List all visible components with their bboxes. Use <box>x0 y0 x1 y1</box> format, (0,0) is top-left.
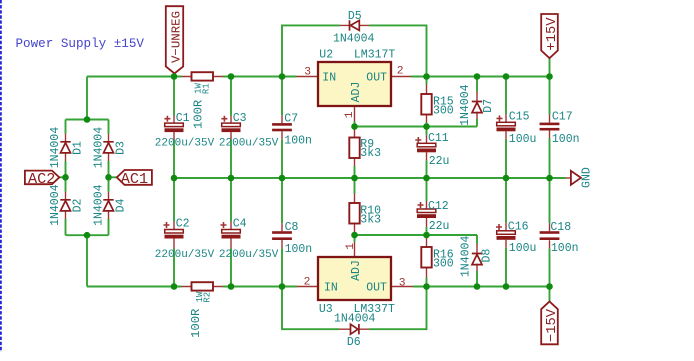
label D1 name <box>72 141 85 155</box>
node adj bottom rail at C12 <box>423 232 430 239</box>
wire bridge right branch <box>108 120 110 236</box>
label C12 value <box>429 220 450 233</box>
label D3 name <box>115 141 128 155</box>
label D6 name <box>347 336 361 349</box>
svg-text:2200u/35V: 2200u/35V <box>155 137 215 149</box>
resistor R2 <box>192 282 214 290</box>
capacitor C16 <box>496 224 516 240</box>
wire C15 column <box>505 77 507 179</box>
svg-text:100n: 100n <box>552 133 580 146</box>
wire C8 column <box>281 178 283 287</box>
pin R15 top+bottom <box>426 85 428 123</box>
label C11 value <box>429 155 450 168</box>
node gnd rail at C11/C12 <box>423 175 430 182</box>
label R2 name <box>202 292 212 303</box>
capacitor C18 <box>540 231 560 240</box>
node bridge top <box>84 116 91 123</box>
wire R16 pins green <box>426 235 428 287</box>
wire C18 column <box>549 178 551 287</box>
label D5 value <box>333 33 375 46</box>
label C3 value <box>219 137 279 149</box>
power flag +15V <box>541 14 558 58</box>
wire C12 column <box>426 178 428 235</box>
label C2 name <box>176 218 190 231</box>
label C4 value <box>219 249 279 261</box>
node adj top rail at C11 <box>423 123 430 130</box>
label C1 name <box>176 112 190 125</box>
label U2 pin ADJ <box>350 82 363 103</box>
svg-text:C8: C8 <box>285 221 299 234</box>
svg-text:22u: 22u <box>429 155 450 168</box>
svg-text:LM317T: LM317T <box>354 49 396 62</box>
pin number U3-3 <box>399 277 406 289</box>
svg-text:100u: 100u <box>509 242 537 255</box>
pin D8 top+bottom <box>476 244 478 272</box>
net AC2 text <box>28 170 55 188</box>
label C4 name <box>233 218 247 231</box>
label R10 value <box>360 213 381 226</box>
svg-text:IN: IN <box>322 71 336 84</box>
wire C11 column <box>426 127 428 179</box>
label R10 name <box>360 204 381 217</box>
pin D4 top+bottom <box>108 192 110 219</box>
svg-text:V−UNREG: V−UNREG <box>169 11 183 63</box>
svg-text:1N4004: 1N4004 <box>334 312 376 325</box>
pin R1 left+right <box>182 76 224 78</box>
label R2 extra 1W <box>195 291 205 302</box>
label R15 name <box>433 96 454 109</box>
node top rail at C1/V-UNREG <box>171 73 178 80</box>
wire C3 column <box>230 77 232 179</box>
label C12 name <box>428 200 449 213</box>
pin U3 OUT (3) <box>391 286 413 288</box>
capacitor C8 <box>272 231 292 240</box>
svg-text:1N4004: 1N4004 <box>459 84 472 126</box>
label D1 value <box>49 127 62 169</box>
label U2 pin IN <box>322 71 336 84</box>
wire top unregulated rail left of R1 <box>87 76 182 78</box>
label D2 value <box>49 184 62 226</box>
wire bottom rail R2 to pin2 <box>223 286 297 288</box>
svg-text:1: 1 <box>345 243 357 250</box>
node gnd rail at C17/C18 <box>546 175 553 182</box>
pin number U3-1 <box>345 243 357 250</box>
wire ADJ rail bottom <box>355 234 478 236</box>
svg-text:1N4004: 1N4004 <box>92 127 105 169</box>
wire U3 ADJ stub <box>354 235 356 242</box>
capacitor C11 <box>415 137 436 152</box>
wire R10 top <box>354 178 356 194</box>
label U2 name <box>319 49 333 62</box>
svg-text:Power Supply ±15V: Power Supply ±15V <box>16 37 145 51</box>
label D7 name <box>482 99 495 113</box>
node bottom rail at C8/D6 <box>279 283 286 290</box>
svg-text:D4: D4 <box>115 199 128 213</box>
svg-text:D2: D2 <box>72 199 85 213</box>
svg-text:2: 2 <box>304 276 311 288</box>
label R16 value <box>433 258 454 271</box>
svg-text:C2: C2 <box>176 218 190 231</box>
svg-text:100R: 100R <box>189 309 203 338</box>
svg-text:2: 2 <box>397 65 404 77</box>
resistor R1 <box>192 72 214 80</box>
op-amp U3 regulator box LM337T <box>318 257 391 300</box>
svg-text:3k3: 3k3 <box>360 213 381 226</box>
pin number U2-2 <box>397 65 404 77</box>
svg-text:2200u/35V: 2200u/35V <box>219 249 279 261</box>
node gnd rail at C15/C16 <box>503 175 510 182</box>
net AC1 text <box>121 170 148 188</box>
wire bridge left branch <box>65 120 67 236</box>
pin number U2-1 <box>344 111 356 118</box>
node gnd rail at R9/R10 <box>351 175 358 182</box>
svg-text:C16: C16 <box>508 220 529 233</box>
wire D5 loop <box>282 25 427 76</box>
pin R10 top+bottom <box>354 194 356 236</box>
diode D3 <box>103 142 113 153</box>
wire bottom rail left of R2 <box>87 286 182 288</box>
svg-text:1N4004: 1N4004 <box>49 127 62 169</box>
capacitor C2 <box>164 222 184 239</box>
wire C4 column <box>230 178 232 287</box>
label D6 value <box>334 312 376 325</box>
label U3 value <box>354 303 396 316</box>
node out rail at C15 <box>503 73 510 80</box>
node bottom rail at C16 <box>503 283 510 290</box>
svg-text:C18: C18 <box>550 221 571 234</box>
label R15 value <box>433 105 454 118</box>
node bottom rail at D6/R16 <box>423 283 430 290</box>
capacitor C4 <box>221 222 241 239</box>
label R9 name <box>360 138 374 151</box>
diode D5 <box>350 20 360 30</box>
pin C1 top+bottom <box>173 116 175 141</box>
node gnd rail at C1/C2 <box>171 175 178 182</box>
pin D3 top+bottom <box>108 134 110 161</box>
pin U2 IN (3) <box>297 76 319 78</box>
label D8 name <box>480 249 493 263</box>
label C16 value <box>509 242 537 255</box>
node top rail at C3 <box>228 73 235 80</box>
svg-text:22u: 22u <box>429 220 450 233</box>
label D7 value <box>459 84 472 126</box>
pin C18 top+bottom <box>549 223 551 248</box>
svg-text:3: 3 <box>399 277 406 289</box>
label U2 pin OUT <box>366 71 387 84</box>
pin D2 top+bottom <box>65 192 67 219</box>
pin C3 top+bottom <box>230 116 232 141</box>
pin C2 top+bottom <box>173 222 175 249</box>
node bridge bottom <box>84 232 91 239</box>
svg-text:−15V: −15V <box>545 308 560 342</box>
pin C16 top+bottom <box>505 223 507 248</box>
capacitor C7 <box>272 123 292 131</box>
PINS (red) <box>66 25 571 329</box>
wire C16 column <box>505 178 507 287</box>
wire R9 bottom <box>354 166 356 178</box>
svg-text:OUT: OUT <box>366 281 387 294</box>
pin C12 top+bottom <box>426 201 428 227</box>
svg-text:D6: D6 <box>347 336 361 349</box>
wire bridge feed vertical bottom <box>86 235 88 286</box>
label C1 value <box>155 137 215 149</box>
svg-text:1: 1 <box>344 111 356 118</box>
wire D6 loop <box>282 287 427 330</box>
wire V-UNREG stub <box>173 74 175 77</box>
resistor R9 <box>349 138 359 159</box>
pin numbers <box>304 65 406 289</box>
pin number U2-3 <box>304 67 311 79</box>
wire bridge top horizontal <box>66 119 109 121</box>
label C3 name <box>233 112 247 125</box>
pin C15 top+bottom <box>505 114 507 138</box>
svg-text:IN: IN <box>324 281 338 294</box>
label R2 value 100R <box>189 309 203 338</box>
wire -15V flag stub <box>549 287 551 302</box>
label R16 name <box>433 249 454 262</box>
resistor R10 <box>349 203 359 224</box>
svg-text:OUT: OUT <box>366 71 387 84</box>
wire AC2 stub <box>60 176 66 178</box>
node bottom rail at C18/-15V <box>546 283 553 290</box>
svg-text:C1: C1 <box>176 112 190 125</box>
node bottom rail at D8 <box>474 283 481 290</box>
svg-text:100n: 100n <box>285 243 313 256</box>
power flag -15V <box>541 302 558 345</box>
label D4 name <box>115 199 128 213</box>
pin C8 top+bottom <box>281 223 283 248</box>
label C15 name <box>509 111 530 124</box>
wire bridge bottom horizontal <box>66 234 109 236</box>
op-amp U2 regulator box LM317T <box>318 62 391 106</box>
label C18 name <box>550 221 571 234</box>
svg-text:100n: 100n <box>551 242 579 255</box>
svg-text:100u: 100u <box>509 133 537 146</box>
label D3 value <box>92 127 105 169</box>
svg-text:2200u/35V: 2200u/35V <box>219 137 279 149</box>
diode D6 <box>351 324 359 334</box>
wire +15V output rail <box>411 76 550 78</box>
svg-text:1N4004: 1N4004 <box>333 33 375 46</box>
svg-text:C3: C3 <box>233 112 247 125</box>
label U3 pin OUT <box>366 281 387 294</box>
svg-text:D3: D3 <box>115 141 128 155</box>
wire top rail R1 to pin3 <box>223 76 297 78</box>
label flag AC2 <box>25 171 59 185</box>
pin number U3-2 <box>304 276 311 288</box>
label C17 value <box>552 133 580 146</box>
svg-text:AC2: AC2 <box>28 170 55 188</box>
node adj bottom rail at U3 <box>351 232 358 239</box>
wire C1 column <box>173 77 175 179</box>
wire C2 column <box>173 178 175 287</box>
capacitor C12 <box>417 202 436 218</box>
svg-text:D8: D8 <box>480 249 493 263</box>
label U3 pin ADJ <box>350 260 363 281</box>
pin D5 left+right <box>340 24 370 26</box>
svg-text:AC1: AC1 <box>121 170 148 188</box>
node gnd rail at C3/C4 <box>228 175 235 182</box>
svg-text:U2: U2 <box>319 49 333 62</box>
label D8 value <box>460 236 473 278</box>
node adj top rail at U2 <box>351 123 358 130</box>
diode D2 <box>60 200 70 211</box>
svg-text:300: 300 <box>433 105 454 118</box>
svg-text:+15V: +15V <box>545 17 560 51</box>
pin U2 ADJ (1) <box>354 106 356 122</box>
label C15 value <box>509 133 537 146</box>
label C8 value <box>285 243 313 256</box>
svg-text:1N4004: 1N4004 <box>460 236 473 278</box>
label U3 pin IN <box>324 281 338 294</box>
label C2 value <box>155 249 215 261</box>
svg-text:C17: C17 <box>552 111 573 124</box>
svg-text:C4: C4 <box>233 218 247 231</box>
label R1 name <box>202 83 212 94</box>
diode D8 <box>472 254 482 265</box>
label D5 name <box>348 10 362 23</box>
label U2 value <box>354 49 396 62</box>
pin C11 top+bottom <box>426 135 428 160</box>
pin D6 left+right <box>339 328 369 330</box>
wire -15V output rail <box>413 286 550 288</box>
label flag AC1 <box>117 170 152 185</box>
power flag V-UNREG <box>166 6 183 73</box>
label D2 name <box>72 199 85 213</box>
wire C7 column <box>281 77 283 179</box>
svg-text:ADJ: ADJ <box>350 260 363 281</box>
net V-UNREG text <box>169 11 183 63</box>
label U3 name <box>319 303 333 316</box>
node out rail at +15V/C17 <box>546 73 553 80</box>
net label texts (maroon) <box>28 11 560 342</box>
diode D7 <box>472 102 482 113</box>
svg-text:ADJ: ADJ <box>350 82 363 103</box>
svg-text:C12: C12 <box>428 200 449 213</box>
pin R9 top+bottom <box>354 128 356 167</box>
node gnd rail at C7/C8 <box>279 175 286 182</box>
node top rail at C7/D5 <box>279 73 286 80</box>
label C7 name <box>284 113 298 126</box>
svg-text:R1: R1 <box>202 83 212 94</box>
wire border dashed (sheet edge, blue) <box>0 0 2 352</box>
pin GND stub <box>566 177 571 179</box>
node out rail at D7 <box>474 73 481 80</box>
wire C17 column <box>549 77 551 179</box>
svg-text:C15: C15 <box>509 111 530 124</box>
svg-text:100n: 100n <box>284 134 312 147</box>
pin U2 OUT (2) <box>391 76 411 78</box>
svg-text:D7: D7 <box>482 99 495 113</box>
ground flag GND <box>571 171 581 185</box>
capacitor C15 <box>497 115 516 131</box>
svg-text:C11: C11 <box>428 132 449 145</box>
wire ADJ rail top <box>355 126 478 128</box>
label C11 name <box>428 132 449 145</box>
node AC2 <box>62 174 69 181</box>
svg-text:1N4004: 1N4004 <box>92 184 105 226</box>
svg-text:100R: 100R <box>192 100 206 129</box>
wire GND mid rail <box>174 177 566 179</box>
net +15V text <box>545 17 560 51</box>
svg-text:R2: R2 <box>202 292 212 303</box>
svg-text:3k3: 3k3 <box>360 147 381 160</box>
svg-text:2200u/35V: 2200u/35V <box>155 249 215 261</box>
svg-text:3: 3 <box>304 67 311 79</box>
wire +15V flag stub <box>549 58 551 76</box>
node AC1 <box>105 174 112 181</box>
label C16 name <box>508 220 529 233</box>
label D4 value <box>92 184 105 226</box>
svg-text:GND: GND <box>581 167 594 188</box>
wire bridge feed vertical top <box>86 77 88 120</box>
svg-text:D5: D5 <box>348 10 362 23</box>
pin D7 top+bottom <box>476 92 478 120</box>
resistor R16 <box>421 247 431 268</box>
pin U3 ADJ (1) <box>354 242 356 257</box>
svg-text:300: 300 <box>433 258 454 271</box>
capacitor C17 <box>540 123 560 131</box>
label C17 name <box>552 111 573 124</box>
svg-text:D1: D1 <box>72 141 85 155</box>
label R9 value <box>360 147 381 160</box>
label C7 value <box>284 134 312 147</box>
pin U3 IN (2) <box>297 286 318 288</box>
wire D7 column <box>476 77 478 127</box>
pin C17 top+bottom <box>549 115 551 139</box>
net -15V text <box>545 308 560 342</box>
label R1 value 100R <box>192 100 206 129</box>
label C18 value <box>551 242 579 255</box>
svg-text:C7: C7 <box>284 113 298 126</box>
diode D4 <box>103 200 113 211</box>
node bottom rail at C4 <box>228 283 235 290</box>
svg-text:U3: U3 <box>319 303 333 316</box>
capacitor C1 <box>164 116 183 132</box>
svg-text:1N4004: 1N4004 <box>49 184 62 226</box>
pin R16 top+bottom <box>426 237 428 278</box>
wire AC1 stub <box>109 176 117 178</box>
wire R15 pins green <box>426 77 428 127</box>
title text <box>16 37 145 51</box>
resistor R15 <box>421 94 431 115</box>
label R1 extra 1W <box>194 83 204 94</box>
node out rail at D5/R15 <box>423 73 430 80</box>
pin D1 top+bottom <box>65 134 67 161</box>
diode D1 <box>60 142 70 153</box>
pin C7 top+bottom <box>281 115 283 139</box>
label C8 name <box>285 221 299 234</box>
wire D8 column <box>476 235 478 287</box>
pin R2 left+right <box>182 286 224 288</box>
label GND net <box>581 167 594 188</box>
node bottom rail at C2 <box>171 283 178 290</box>
pin C4 top+bottom <box>230 222 232 249</box>
capacitor C3 <box>221 116 240 132</box>
wire U2 ADJ stub <box>354 122 356 127</box>
